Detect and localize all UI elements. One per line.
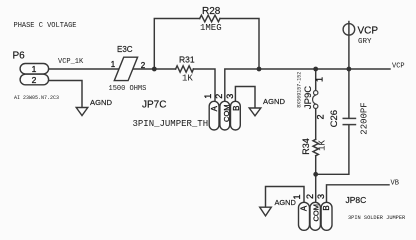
svg-text:A: A [299,205,308,211]
svg-text:3: 3 [225,94,235,99]
resistor R31 [176,66,194,72]
svg-text:1: 1 [32,64,37,74]
svg-text:AGND: AGND [90,98,112,107]
node E3C/R28/R31 [152,67,157,72]
connector P6 pin2 body [20,74,48,85]
resistor R28 [200,15,220,22]
svg-text:1: 1 [315,77,325,82]
svg-text:A: A [210,105,219,111]
svg-text:2: 2 [214,94,224,99]
svg-text:JP8C: JP8C [346,195,367,205]
svg-text:AGND: AGND [263,97,285,106]
wire VCP symbol drop [348,22,350,70]
svg-text:3PIN SOLDER JUMPER: 3PIN SOLDER JUMPER [348,215,406,221]
svg-text:VCP_1K: VCP_1K [58,58,84,66]
svg-text:1MEG: 1MEG [200,23,222,33]
svg-text:COM: COM [222,104,231,122]
svg-text:VB: VB [391,180,399,188]
svg-text:VCP: VCP [358,26,379,37]
svg-text:1500 OHMS: 1500 OHMS [109,85,147,93]
labels: black designators [13,6,379,207]
jumper JP7C pin A body [209,101,219,130]
svg-text:R34: R34 [301,138,311,155]
svg-text:2: 2 [32,75,37,85]
svg-text:1K: 1K [182,73,193,83]
gray value / net texts [14,22,407,221]
wire P6 pin1 to E3C [49,68,120,70]
wire R28 branch left [154,19,199,70]
capacitor C26 plates [343,118,357,124]
wire R28 branch right [220,19,259,70]
svg-text:1: 1 [111,60,116,69]
power symbol VCP [343,24,355,36]
svg-text:2: 2 [316,114,326,119]
jumper JP8C pin B body [321,202,332,230]
svg-text:B: B [232,106,241,111]
wire JP9C pin2 to R34 [315,109,317,140]
wire P6 pin2 to AGND [49,81,83,108]
jumper JP7C pin B body [231,101,241,130]
svg-text:E3C: E3C [117,45,133,54]
svg-text:2: 2 [305,194,315,199]
node JP9C tap [313,67,318,72]
resistor R34 [313,139,318,155]
ground AGND 2 (JP7C) [249,108,261,116]
jumper JP9C symbol [313,91,318,109]
node R28/COM net [257,67,262,72]
wire R34 to JP8C COM [315,156,317,203]
svg-text:VCP: VCP [392,63,405,71]
svg-text:JP7C: JP7C [142,100,166,111]
ground AGND 3 (JP8C) [260,207,272,216]
svg-text:2: 2 [141,61,146,70]
ground AGND 1 (P6) [76,108,88,116]
svg-text:R28: R28 [202,6,221,17]
ferrite bead E3C body [114,57,137,80]
wire VCP node down to C26 [348,69,350,118]
node junction dots [152,67,351,177]
node VCP/C26 [347,67,352,72]
svg-text:3: 3 [316,194,326,199]
svg-text:8XS69157-152: 8XS69157-152 [297,72,303,108]
wire JP7C COM up and right to VCP label [225,69,390,101]
wire junction to JP9C pin1 [315,69,317,91]
svg-text:C26: C26 [329,110,340,127]
wire JP8C pin A to AGND [266,187,305,208]
svg-text:JP9C: JP9C [303,86,314,109]
node R34/C26/JP8C COM [313,172,318,177]
svg-text:R31: R31 [179,54,195,64]
svg-text:PHASE C VOLTAGE: PHASE C VOLTAGE [14,22,77,30]
wire E3C pin2 to junction and R31 [133,68,176,70]
svg-text:1: 1 [292,194,302,199]
svg-text:1K: 1K [318,140,328,151]
svg-text:2200PF: 2200PF [360,102,370,134]
svg-text:B: B [322,205,331,210]
svg-text:GRY: GRY [358,38,372,46]
svg-text:1: 1 [203,94,213,99]
jumper JP8C pin COM body [310,202,320,230]
jumper JP7C pin COM body [220,101,230,130]
wire C26 bottom to junction [316,125,349,175]
svg-text:3PIN_JUMPER_TH: 3PIN_JUMPER_TH [133,119,209,129]
jumper JP8C pin A body [299,202,310,230]
connector P6 pin1 body [20,64,48,74]
svg-text:AI 23W05.N7.2C3: AI 23W05.N7.2C3 [14,95,59,101]
svg-text:COM: COM [312,204,321,222]
wire JP7C pin B to AGND [235,87,255,109]
wire R31 to JP7C pin A [193,69,215,101]
svg-text:P6: P6 [13,51,26,62]
wire JP8C pin B to VB label [327,185,390,203]
